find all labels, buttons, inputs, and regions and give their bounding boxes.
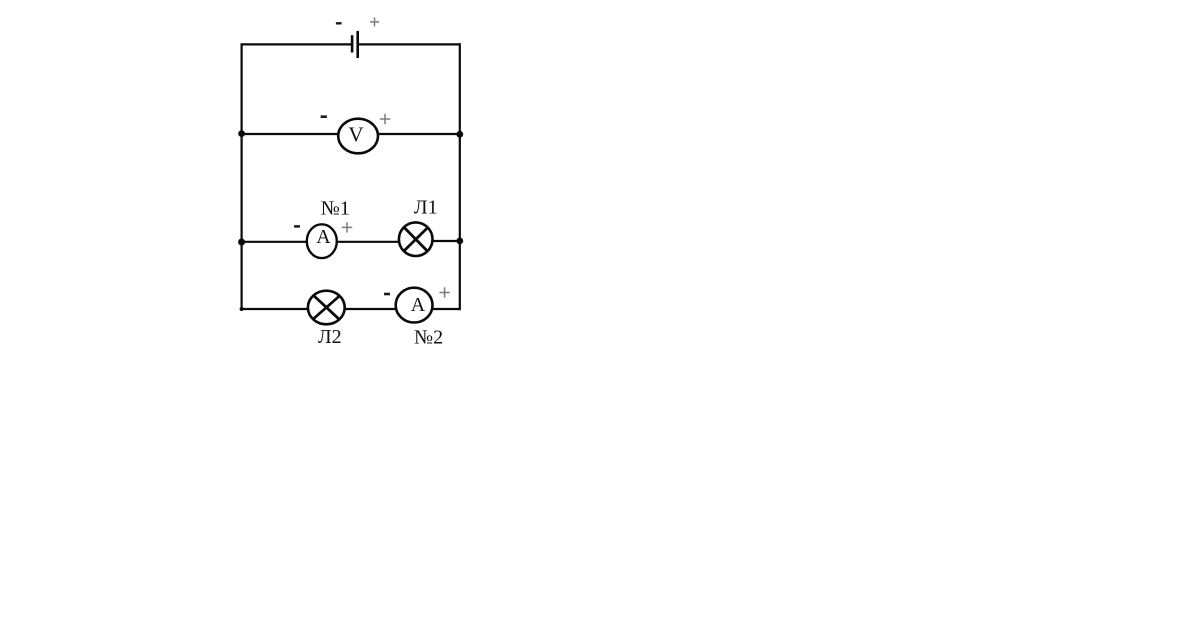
svg-text:A: A [316, 226, 331, 248]
lamp L1 [399, 222, 433, 256]
svg-text:Л2: Л2 [318, 326, 342, 348]
node right rail2 junction dot [456, 131, 463, 138]
wire right vertical [459, 43, 461, 310]
wire rail4 segment B [345, 308, 396, 310]
wire rail3 segment A [242, 241, 307, 243]
ammeter A2 minus label [384, 293, 390, 296]
wire rail2 right segment [378, 133, 460, 135]
battery minus label [336, 22, 342, 24]
voltmeter minus label [321, 115, 327, 118]
node left rail2 junction dot [238, 130, 245, 137]
node left rail3 junction dot [238, 239, 245, 246]
node right rail3 junction dot [456, 238, 463, 245]
svg-text:№1: №1 [321, 198, 350, 220]
wire left vertical [241, 43, 243, 309]
lamp L2 [308, 291, 345, 325]
wire top rail left segment [242, 43, 351, 45]
voltmeter plus label [380, 114, 390, 124]
ammeter A1 plus label [342, 222, 352, 232]
wire rail3 segment C [432, 240, 459, 242]
wire top rail right segment [359, 43, 460, 45]
node bottom-left corner dot [240, 307, 244, 311]
battery B1 positive plate (long) [356, 31, 359, 58]
battery B1 negative plate (short) [351, 35, 354, 52]
ammeter A2 plus label [439, 287, 449, 297]
ammeter A1 [307, 224, 337, 258]
ammeter A1 minus label [294, 225, 300, 228]
voltmeter V [338, 119, 378, 154]
svg-text:№2: №2 [414, 327, 443, 349]
battery plus label [370, 17, 379, 26]
wire rail2 left segment [242, 133, 339, 135]
svg-text:Л1: Л1 [414, 197, 438, 219]
wire rail3 segment B [337, 241, 399, 243]
ammeter A2 [396, 288, 433, 323]
wire rail4 segment A [242, 308, 308, 310]
svg-text:V: V [348, 122, 363, 146]
svg-text:A: A [411, 294, 426, 316]
wire rail4 segment C [432, 308, 459, 310]
